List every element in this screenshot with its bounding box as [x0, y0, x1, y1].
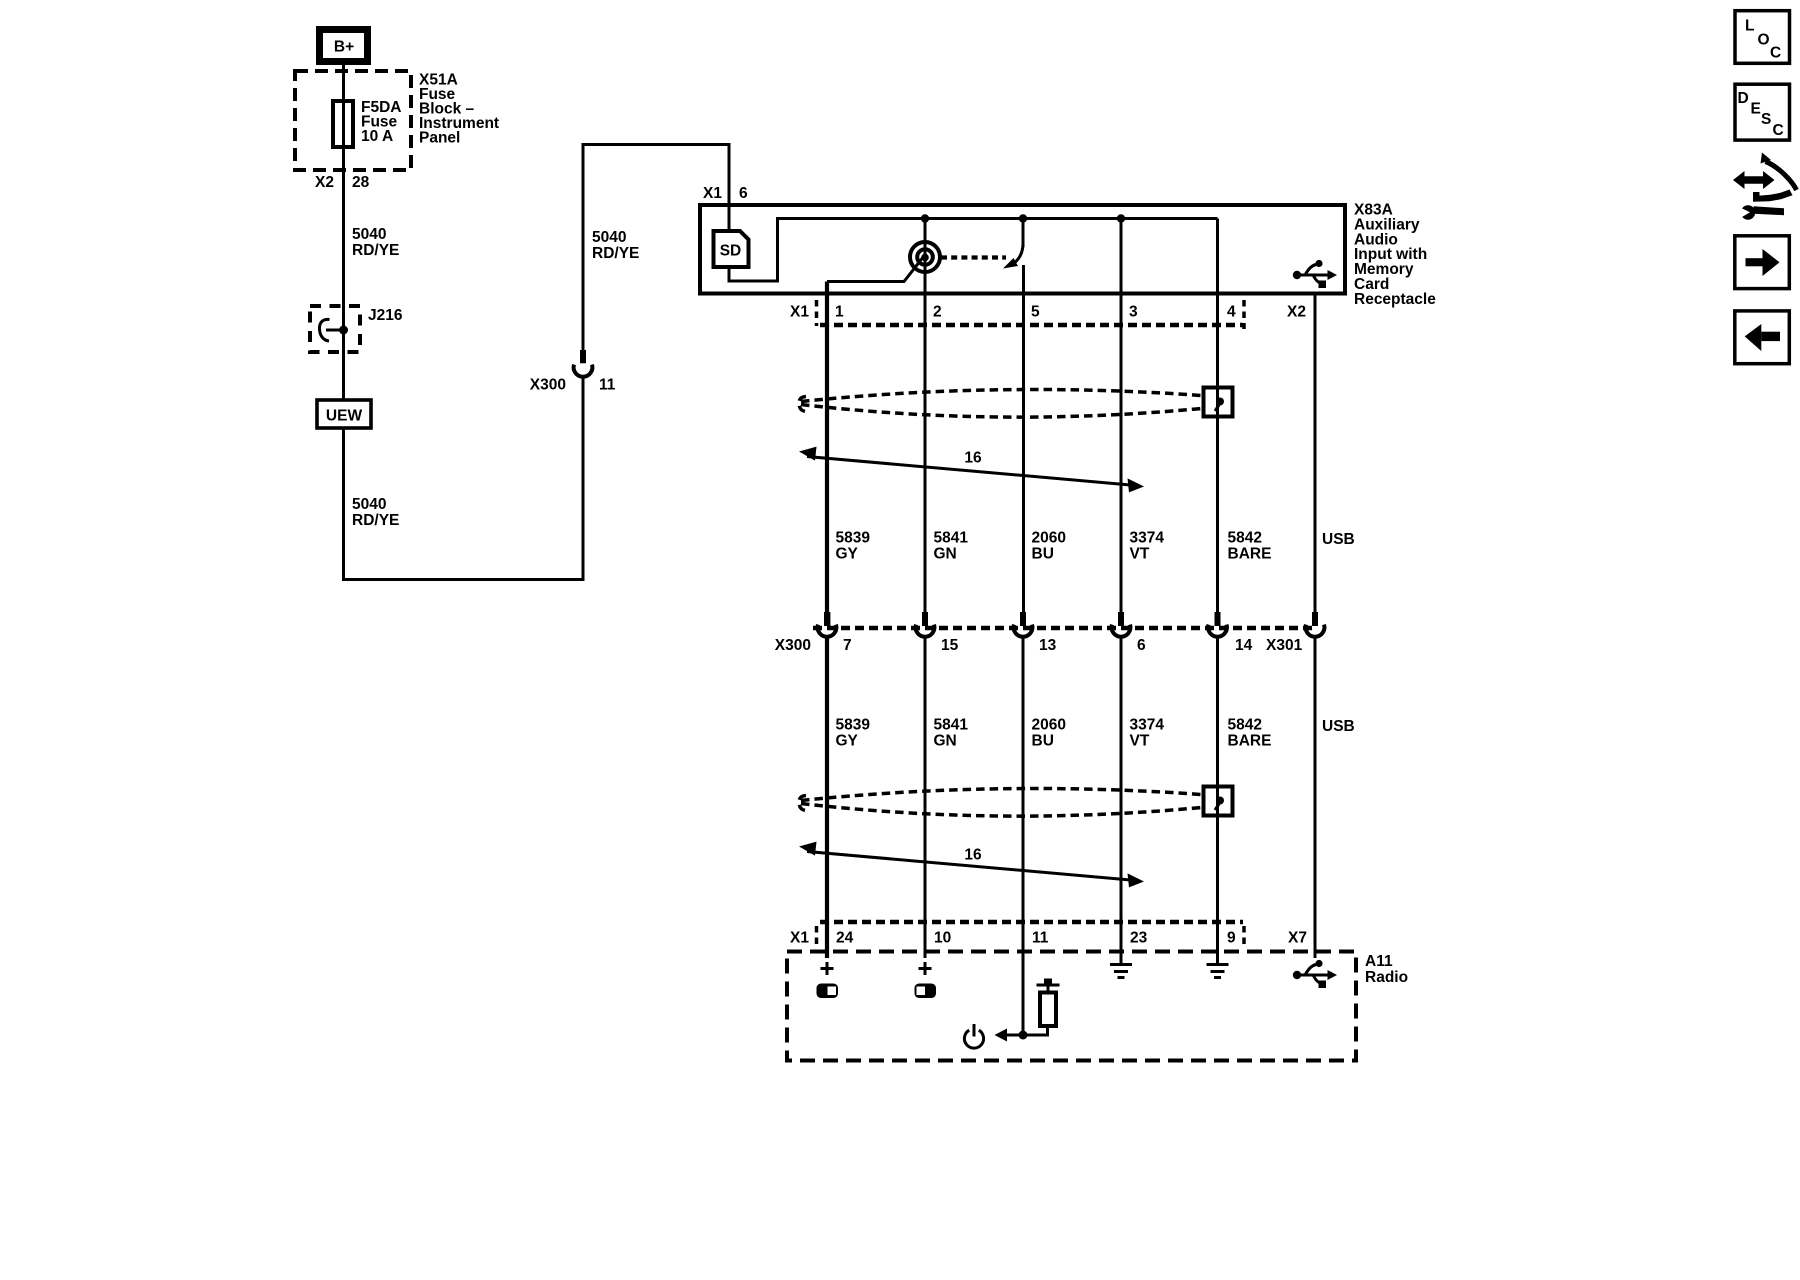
- pin labels X1 1 2 5 3 4 X2: [790, 304, 1306, 321]
- svg-text:E: E: [1751, 101, 1761, 118]
- svg-text:VT: VT: [1130, 546, 1150, 563]
- A11 Radio dashed box: [787, 952, 1356, 1061]
- pin labels X2 28: [315, 174, 370, 191]
- wire labels row 1: [836, 530, 1355, 563]
- label X51A Fuse Block - Instrument Panel: [419, 72, 499, 147]
- resistor to B+: [1037, 979, 1060, 1027]
- svg-text:5842: 5842: [1228, 530, 1262, 547]
- svg-text:Receptacle: Receptacle: [1354, 291, 1436, 308]
- twisted pair arrow 16 upper: [799, 447, 1144, 493]
- svg-text:UEW: UEW: [326, 408, 363, 425]
- svg-text:RD/YE: RD/YE: [352, 242, 399, 259]
- wire: bottom run over to X300 branch: [344, 378, 584, 580]
- svg-text:11: 11: [599, 377, 616, 394]
- svg-text:10: 10: [934, 930, 951, 947]
- svg-text:5040: 5040: [352, 496, 386, 513]
- svg-text:A11: A11: [1365, 953, 1393, 970]
- wire label 5040 RD/YE riser: [592, 229, 639, 262]
- svg-text:X301: X301: [1266, 637, 1303, 654]
- wire w5 lower: [1216, 638, 1219, 963]
- pin labels X1 6: [703, 185, 748, 202]
- speaker icon left: [817, 984, 839, 999]
- connector pin w5 at X300-14: [1208, 612, 1227, 637]
- shield ellipse lower: [799, 788, 1201, 816]
- svg-text:C: C: [1770, 45, 1781, 62]
- separator left: [815, 300, 819, 326]
- svg-text:7: 7: [843, 637, 852, 654]
- svg-text:2: 2: [933, 304, 942, 321]
- X83A Auxiliary Audio Input box: [700, 205, 1345, 294]
- svg-text:GY: GY: [836, 733, 859, 750]
- label A11 Radio: [1365, 953, 1408, 986]
- nav icon DESC: [1735, 84, 1790, 140]
- wire: riser to X1-6 of X83A with SD feed: [583, 145, 729, 353]
- labels X300 11: [530, 377, 616, 394]
- speaker plus right: [919, 962, 932, 975]
- svg-text:9: 9: [1227, 930, 1236, 947]
- svg-text:5839: 5839: [836, 530, 871, 547]
- svg-text:BARE: BARE: [1228, 546, 1272, 563]
- wire w3 lower: [1022, 638, 1025, 1035]
- svg-text:X300: X300: [775, 637, 811, 654]
- splice J216 dashed box: [310, 306, 360, 352]
- SD card symbol: [714, 231, 749, 267]
- svg-text:B+: B+: [334, 39, 354, 56]
- wire w2 lower: [924, 638, 927, 958]
- wire: pin 3 drop: [1120, 219, 1123, 614]
- wire: pin 4 drop: [1216, 219, 1219, 614]
- svg-text:BARE: BARE: [1228, 733, 1272, 750]
- UEW box: [317, 400, 371, 428]
- connector pin w2 at X300-15: [916, 612, 935, 637]
- svg-text:X2: X2: [1287, 304, 1306, 321]
- svg-text:5839: 5839: [836, 717, 871, 734]
- svg-text:D: D: [1738, 90, 1749, 107]
- svg-text:16: 16: [964, 450, 982, 467]
- shield drain box upper: [1204, 388, 1233, 417]
- svg-text:11: 11: [1032, 930, 1049, 947]
- svg-text:5841: 5841: [934, 717, 969, 734]
- nav icon arrow back: [1735, 311, 1790, 364]
- nav icon LOC: [1735, 11, 1790, 64]
- svg-text:C: C: [1773, 122, 1784, 139]
- jack-switch linkage dashed: [941, 255, 1006, 259]
- wire label 5040 RD/YE lower: [352, 496, 399, 529]
- svg-text:BU: BU: [1032, 546, 1054, 563]
- ground pin 9: [1207, 965, 1229, 978]
- wire w1 lower: [825, 638, 829, 958]
- svg-text:5040: 5040: [352, 226, 386, 243]
- svg-text:Radio: Radio: [1365, 969, 1408, 986]
- svg-text:USB: USB: [1322, 718, 1355, 735]
- twisted pair arrow 16 lower: [799, 842, 1144, 888]
- fuse block X51A dashed box: [295, 71, 411, 170]
- svg-text:RD/YE: RD/YE: [592, 245, 639, 262]
- svg-text:RD/YE: RD/YE: [352, 512, 399, 529]
- svg-text:3: 3: [1129, 304, 1138, 321]
- svg-text:X1: X1: [790, 930, 809, 947]
- svg-text:GY: GY: [836, 546, 859, 563]
- svg-text:23: 23: [1130, 930, 1148, 947]
- connector pin w3 at X300-13: [1014, 612, 1033, 637]
- shield ellipse upper: [799, 389, 1201, 417]
- connector row X1 of X83A dashed: [820, 323, 1243, 328]
- svg-text:14: 14: [1235, 637, 1253, 654]
- speaker icon right: [915, 984, 937, 999]
- wire: pin 2 drop through jack: [924, 219, 927, 614]
- separator right: [1242, 926, 1246, 948]
- internal wire: SD to bus: [729, 219, 1218, 282]
- ground pin 23: [1110, 965, 1132, 978]
- power control branch: [995, 1026, 1048, 1042]
- wire w4 lower: [1120, 638, 1123, 963]
- wire labels row 2: [836, 717, 1355, 750]
- wire: pin 1 drop: [825, 282, 829, 614]
- svg-text:SD: SD: [720, 243, 742, 260]
- svg-text:Panel: Panel: [419, 130, 460, 147]
- USB symbol in X83A: [1293, 260, 1337, 288]
- svg-text:L: L: [1745, 18, 1754, 35]
- svg-text:2060: 2060: [1032, 530, 1066, 547]
- svg-text:J216: J216: [368, 307, 403, 324]
- connector pin w4 at X300-6: [1112, 612, 1131, 637]
- label X83A Auxiliary Audio Input with Memory Card Receptacle: [1354, 202, 1436, 308]
- svg-text:O: O: [1758, 32, 1770, 49]
- power symbol: [964, 1024, 983, 1048]
- svg-text:VT: VT: [1130, 733, 1150, 750]
- splice J216 hook and tap: [319, 319, 348, 341]
- labels X300 7 15 13 6 14 X301: [775, 637, 1303, 654]
- audio jack symbol: [910, 242, 940, 272]
- svg-text:4: 4: [1227, 304, 1236, 321]
- speaker plus left: [821, 962, 834, 975]
- separator right: [1242, 300, 1246, 329]
- junction node pin2: [921, 214, 929, 222]
- nav icon wiring routing: [1733, 153, 1797, 220]
- switch SD detect: [1003, 219, 1023, 269]
- svg-text:24: 24: [836, 930, 854, 947]
- svg-text:16: 16: [964, 847, 982, 864]
- svg-text:S: S: [1761, 111, 1771, 128]
- svg-text:2060: 2060: [1032, 717, 1066, 734]
- USB symbol in radio: [1293, 960, 1337, 988]
- svg-text:5841: 5841: [934, 530, 969, 547]
- svg-text:6: 6: [739, 185, 748, 202]
- svg-text:13: 13: [1039, 637, 1057, 654]
- svg-text:X2: X2: [315, 174, 334, 191]
- svg-text:5842: 5842: [1228, 717, 1262, 734]
- svg-text:GN: GN: [934, 733, 957, 750]
- nav icon arrow next: [1735, 236, 1790, 289]
- pin labels X1 24 10 11 23 9 X7: [790, 930, 1307, 947]
- svg-text:X1: X1: [703, 185, 722, 202]
- separator left: [815, 926, 819, 948]
- wire: pin 5 drop: [1022, 265, 1025, 613]
- svg-text:X1: X1: [790, 304, 809, 321]
- junction node pin3: [1117, 214, 1125, 222]
- wire label 5040 RD/YE: [352, 226, 399, 259]
- wire w6 lower: [1314, 638, 1317, 958]
- svg-text:BU: BU: [1032, 733, 1054, 750]
- svg-text:10 A: 10 A: [361, 128, 393, 145]
- svg-text:X300: X300: [530, 377, 566, 394]
- junction node pin5: [1019, 214, 1027, 222]
- label F5DA Fuse 10 A: [361, 99, 401, 145]
- svg-text:GN: GN: [934, 546, 957, 563]
- svg-text:USB: USB: [1322, 531, 1355, 548]
- svg-text:1: 1: [835, 304, 844, 321]
- svg-text:28: 28: [352, 174, 370, 191]
- svg-text:5: 5: [1031, 304, 1040, 321]
- connector pin w1 at X300-7: [818, 612, 837, 637]
- wire: USB X2 drop: [1314, 295, 1317, 613]
- svg-text:X7: X7: [1288, 930, 1307, 947]
- jack lever to pin 1: [827, 254, 926, 282]
- wire: B+ feed down left branch: [342, 65, 345, 580]
- in-line connector X300 pin 11: [574, 350, 593, 377]
- svg-text:6: 6: [1137, 637, 1146, 654]
- svg-text:3374: 3374: [1130, 717, 1165, 734]
- svg-text:3374: 3374: [1130, 530, 1165, 547]
- power symbol B+: [320, 30, 368, 62]
- svg-text:15: 15: [941, 637, 959, 654]
- svg-text:5040: 5040: [592, 229, 626, 246]
- fuse F5DA: [333, 101, 353, 147]
- connector row X1 of radio dashed: [820, 920, 1243, 925]
- connector X300/X301 row dashed: [813, 626, 1313, 631]
- shield drain box lower: [1204, 787, 1233, 816]
- connector pin w6 at X301: [1306, 612, 1325, 637]
